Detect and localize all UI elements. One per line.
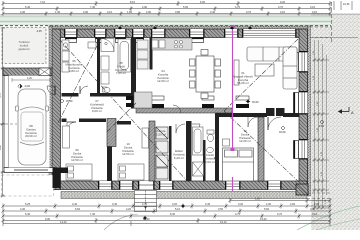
garage door line	[14, 169, 48, 171]
svg-text:2,90: 2,90	[83, 10, 89, 14]
wall kamra/eloter thin	[169, 126, 172, 181]
door living-hall arc	[268, 117, 281, 130]
east wall insulation speckle	[308, 26, 311, 196]
door arc bath top	[80, 86, 88, 94]
diamond markers on north wall dim	[118, 27, 252, 30]
bottom dimension numbers	[20, 197, 320, 221]
svg-text:9,30: 9,30	[45, 217, 51, 221]
door arc corridor right	[173, 105, 181, 113]
window N1	[64, 29, 78, 38]
green hedge band top	[0, 16, 331, 26]
svg-text:8,40: 8,40	[170, 212, 176, 216]
svg-text:4,40: 4,40	[72, 202, 78, 206]
wall living south	[215, 113, 299, 117]
roof line N to W	[58, 38, 101, 123]
corridor south wall segments	[62, 119, 132, 125]
svg-text:13,20: 13,20	[260, 217, 267, 221]
label furdo top	[115, 61, 127, 75]
wall bedroom3 left	[215, 117, 219, 181]
svg-text:3,40: 3,40	[205, 202, 211, 206]
svg-text:7,10: 7,10	[40, 0, 46, 4]
west wall	[52, 29, 61, 190]
sill S6	[191, 38, 204, 43]
tv bench living	[234, 60, 239, 85]
svg-text:3,80: 3,80	[175, 10, 181, 14]
roof line corridor short	[106, 103, 136, 133]
svg-text:3,20: 3,20	[172, 202, 178, 206]
svg-text:5,40: 5,40	[25, 212, 31, 216]
top dimension line row3	[3, 12, 330, 17]
svg-text:19,10: 19,10	[220, 220, 227, 224]
wall under top-left rooms	[62, 93, 132, 97]
svg-text:5,60: 5,60	[264, 207, 270, 211]
svg-text:3,10: 3,10	[310, 5, 316, 9]
svg-text:2,30: 2,30	[314, 202, 320, 206]
svg-text:1,20: 1,20	[255, 197, 261, 201]
bed bedroom3	[223, 148, 254, 181]
car in garage	[16, 89, 49, 165]
pocket door symbols on kitchen wall	[126, 96, 249, 108]
terrain stipple right	[311, 13, 360, 230]
svg-text:5,70: 5,70	[0, 93, 2, 98]
svg-text:3,70: 3,70	[277, 212, 283, 216]
garage window north	[39, 68, 50, 76]
svg-text:-0,02: -0,02	[24, 84, 30, 88]
wardrobe hall rects	[266, 108, 285, 116]
windows east wall	[294, 51, 308, 160]
sill S3	[116, 38, 126, 43]
desk top-left room	[88, 42, 96, 48]
wall bath/kitchen vertical thick	[131, 38, 136, 109]
svg-text:2,30: 2,30	[266, 202, 272, 206]
window N4	[132, 29, 145, 38]
wall bedroom3 right hatched	[258, 117, 264, 181]
svg-text:3,10: 3,10	[312, 212, 318, 216]
svg-text:7,65 m²: 7,65 m²	[116, 71, 126, 75]
label mosokonyha	[65, 59, 82, 73]
top dimension numbers	[20, 0, 318, 14]
svg-text:55,00 m²: 55,00 m²	[237, 81, 249, 85]
line above band	[0, 14, 360, 16]
shower top bath	[101, 39, 114, 52]
wardrobe bedroom2	[142, 128, 149, 148]
svg-text:4,80: 4,80	[0, 145, 2, 150]
entry steps	[135, 191, 157, 212]
label konyha	[157, 69, 169, 83]
dining table	[190, 50, 221, 99]
roof line NW long	[59, 39, 187, 181]
section marker A right	[338, 107, 354, 115]
svg-text:3,40: 3,40	[112, 202, 118, 206]
shower bottom bath	[193, 162, 204, 176]
svg-text:2,60: 2,60	[290, 202, 296, 206]
door corridor-bedroom1	[67, 122, 76, 131]
wall eloter/wc	[186, 121, 192, 181]
kamra shelves stack	[156, 127, 168, 179]
property line dashed right	[331, 2, 333, 42]
bed bedroom1	[66, 164, 92, 180]
svg-text:7,40: 7,40	[90, 5, 96, 9]
pantry wall	[150, 38, 153, 70]
label furdo bottom	[204, 153, 216, 164]
window E2	[294, 91, 308, 115]
svg-text:±0,00: ±0,00	[279, 130, 286, 134]
dashed extensions east	[310, 27, 331, 38]
wall bedroom2/kamra	[149, 121, 155, 181]
bathtub	[118, 39, 131, 72]
SW corner black pier	[53, 168, 69, 174]
dash line garage center	[0, 123, 17, 125]
garage west wall	[4, 76, 9, 169]
svg-text:12,50 m²: 12,50 m²	[122, 152, 134, 156]
windows north wall	[64, 29, 297, 38]
driveway dashed plot top-left	[2, 28, 46, 64]
top dimension line row2	[3, 7, 330, 12]
svg-text:3,40: 3,40	[210, 10, 216, 14]
window N6	[189, 29, 205, 38]
entrance door S-C	[138, 181, 155, 190]
sill S1	[66, 38, 77, 43]
kitchen island	[134, 92, 152, 108]
top dimension line row1	[3, 1, 330, 6]
garage south wall	[4, 168, 55, 173]
window S-B	[119, 181, 134, 190]
driveway dashed below garage	[2, 175, 54, 196]
window N7	[224, 29, 239, 38]
svg-text:gépkocsi: gépkocsi	[18, 47, 29, 51]
window sill symbols below north wall	[66, 38, 204, 43]
window S-E	[225, 181, 241, 190]
window N2	[94, 29, 107, 38]
windows south wall	[98, 181, 282, 190]
label szoba2	[122, 142, 134, 156]
toilet top bath	[101, 56, 110, 93]
svg-text:1,80: 1,80	[127, 10, 133, 14]
svg-text:±0,00: ±0,00	[66, 99, 73, 103]
window E3	[294, 139, 308, 160]
label kozlekedo	[90, 99, 104, 113]
svg-text:2,10: 2,10	[107, 10, 113, 14]
terrain contour arcs bottom right	[297, 206, 360, 230]
svg-text:12,00 m²: 12,00 m²	[239, 139, 251, 143]
door garage-house	[47, 86, 55, 95]
svg-text:12,50 m²: 12,50 m²	[71, 158, 83, 162]
svg-text:4,50 m²: 4,50 m²	[205, 160, 215, 164]
door bedroom3	[248, 117, 258, 127]
svg-text:4,70: 4,70	[235, 212, 241, 216]
wall kitchen south hatched	[136, 108, 232, 113]
toilet bottom wc	[207, 130, 214, 142]
svg-text:2,70: 2,70	[142, 202, 148, 206]
svg-text:1,40: 1,40	[55, 10, 61, 14]
svg-text:9,80 m²: 9,80 m²	[69, 69, 79, 73]
label garazs	[25, 124, 37, 138]
north wall insulation speckle	[49, 26, 310, 29]
svg-text:5,50: 5,50	[183, 5, 189, 9]
svg-text:4,70: 4,70	[235, 5, 241, 9]
svg-text:8,10: 8,10	[130, 0, 136, 4]
contour arc bottom left	[104, 214, 138, 230]
wall bedroom1/bedroom2 crosshatch	[107, 119, 116, 147]
SE corner post	[296, 184, 308, 195]
window N5	[151, 29, 166, 38]
wall wc/furdo thin	[203, 140, 206, 181]
coffee table	[255, 64, 274, 76]
svg-text:3,10: 3,10	[280, 10, 286, 14]
svg-text:12,00 m²: 12,00 m²	[157, 79, 169, 83]
svg-text:-0,05: -0,05	[36, 30, 42, 33]
window S-D	[159, 181, 174, 190]
tub bottom bath	[193, 127, 204, 155]
washer laundry	[62, 40, 69, 72]
bed bedroom2	[118, 164, 144, 180]
svg-text:3,10: 3,10	[312, 10, 318, 14]
garage interior dim	[12, 78, 50, 82]
nightstand bedroom3	[223, 139, 230, 146]
label nappali	[233, 71, 253, 85]
door wc	[192, 124, 200, 132]
sill S4	[134, 38, 144, 43]
svg-text:-0,15: -0,15	[318, 124, 324, 128]
window S-A	[98, 181, 113, 190]
svg-text:5,40: 5,40	[25, 5, 31, 9]
svg-text:3,70: 3,70	[246, 10, 252, 14]
label szoba1	[71, 148, 83, 162]
svg-text:A: A	[351, 110, 354, 115]
south wall	[52, 181, 307, 190]
benchmark star 2	[143, 216, 148, 221]
svg-text:2,50 m²: 2,50 m²	[156, 132, 166, 136]
wardrobe bedroom1	[63, 126, 70, 148]
svg-text:5,10: 5,10	[175, 207, 181, 211]
garage interior	[9, 76, 50, 168]
window E1	[294, 51, 308, 73]
svg-text:6,00: 6,00	[200, 0, 206, 4]
roof line NE	[224, 39, 298, 111]
bottom dim row5	[3, 221, 330, 226]
west wall insulation speckle	[49, 26, 52, 190]
north wall	[52, 29, 310, 38]
label eloter	[173, 149, 185, 160]
svg-text:6,60: 6,60	[75, 207, 81, 211]
svg-text:3,70: 3,70	[278, 5, 284, 9]
window N3	[114, 29, 127, 38]
pantry shelves	[137, 40, 148, 69]
east wall	[299, 29, 308, 190]
door eloter	[176, 124, 185, 133]
sill S5	[153, 38, 165, 43]
wall laundry/bath vertical	[97, 38, 100, 95]
svg-text:5,25: 5,25	[25, 202, 31, 206]
svg-text:20,00 m²: 20,00 m²	[25, 134, 37, 138]
svg-text:2,90: 2,90	[142, 5, 148, 9]
sink bottom wc	[207, 147, 214, 152]
svg-text:4,20: 4,20	[27, 77, 32, 80]
benchmark star 1	[181, 204, 186, 209]
svg-text:10,36: 10,36	[343, 2, 350, 6]
svg-text:4,30: 4,30	[20, 207, 26, 211]
svg-text:6,20 m²: 6,20 m²	[174, 156, 184, 160]
svg-text:3,20: 3,20	[238, 202, 244, 206]
wall bedroom1/bedroom2 lower	[107, 147, 112, 182]
svg-text:7,40: 7,40	[90, 212, 96, 216]
terrace sliding door N8	[242, 29, 297, 38]
sofa L-shape	[247, 47, 297, 89]
svg-text:9,20: 9,20	[280, 0, 286, 4]
svg-text:2,00: 2,00	[146, 10, 152, 14]
garage north wall	[3, 68, 52, 76]
svg-text:4,30: 4,30	[20, 10, 26, 14]
window S-F	[267, 181, 282, 190]
top right small dims	[334, 1, 352, 10]
roof line SE	[224, 111, 301, 184]
label kamra	[156, 129, 166, 136]
label szoba3	[239, 129, 251, 143]
svg-text:14,20: 14,20	[60, 220, 67, 224]
svg-text:3,50: 3,50	[218, 207, 224, 211]
svg-text:4,20: 4,20	[126, 207, 132, 211]
sill S2	[96, 38, 106, 43]
svg-text:9,00 m²: 9,00 m²	[92, 109, 102, 113]
svg-text:±0,00: ±0,00	[252, 100, 259, 104]
kitchen counter top	[152, 38, 192, 50]
